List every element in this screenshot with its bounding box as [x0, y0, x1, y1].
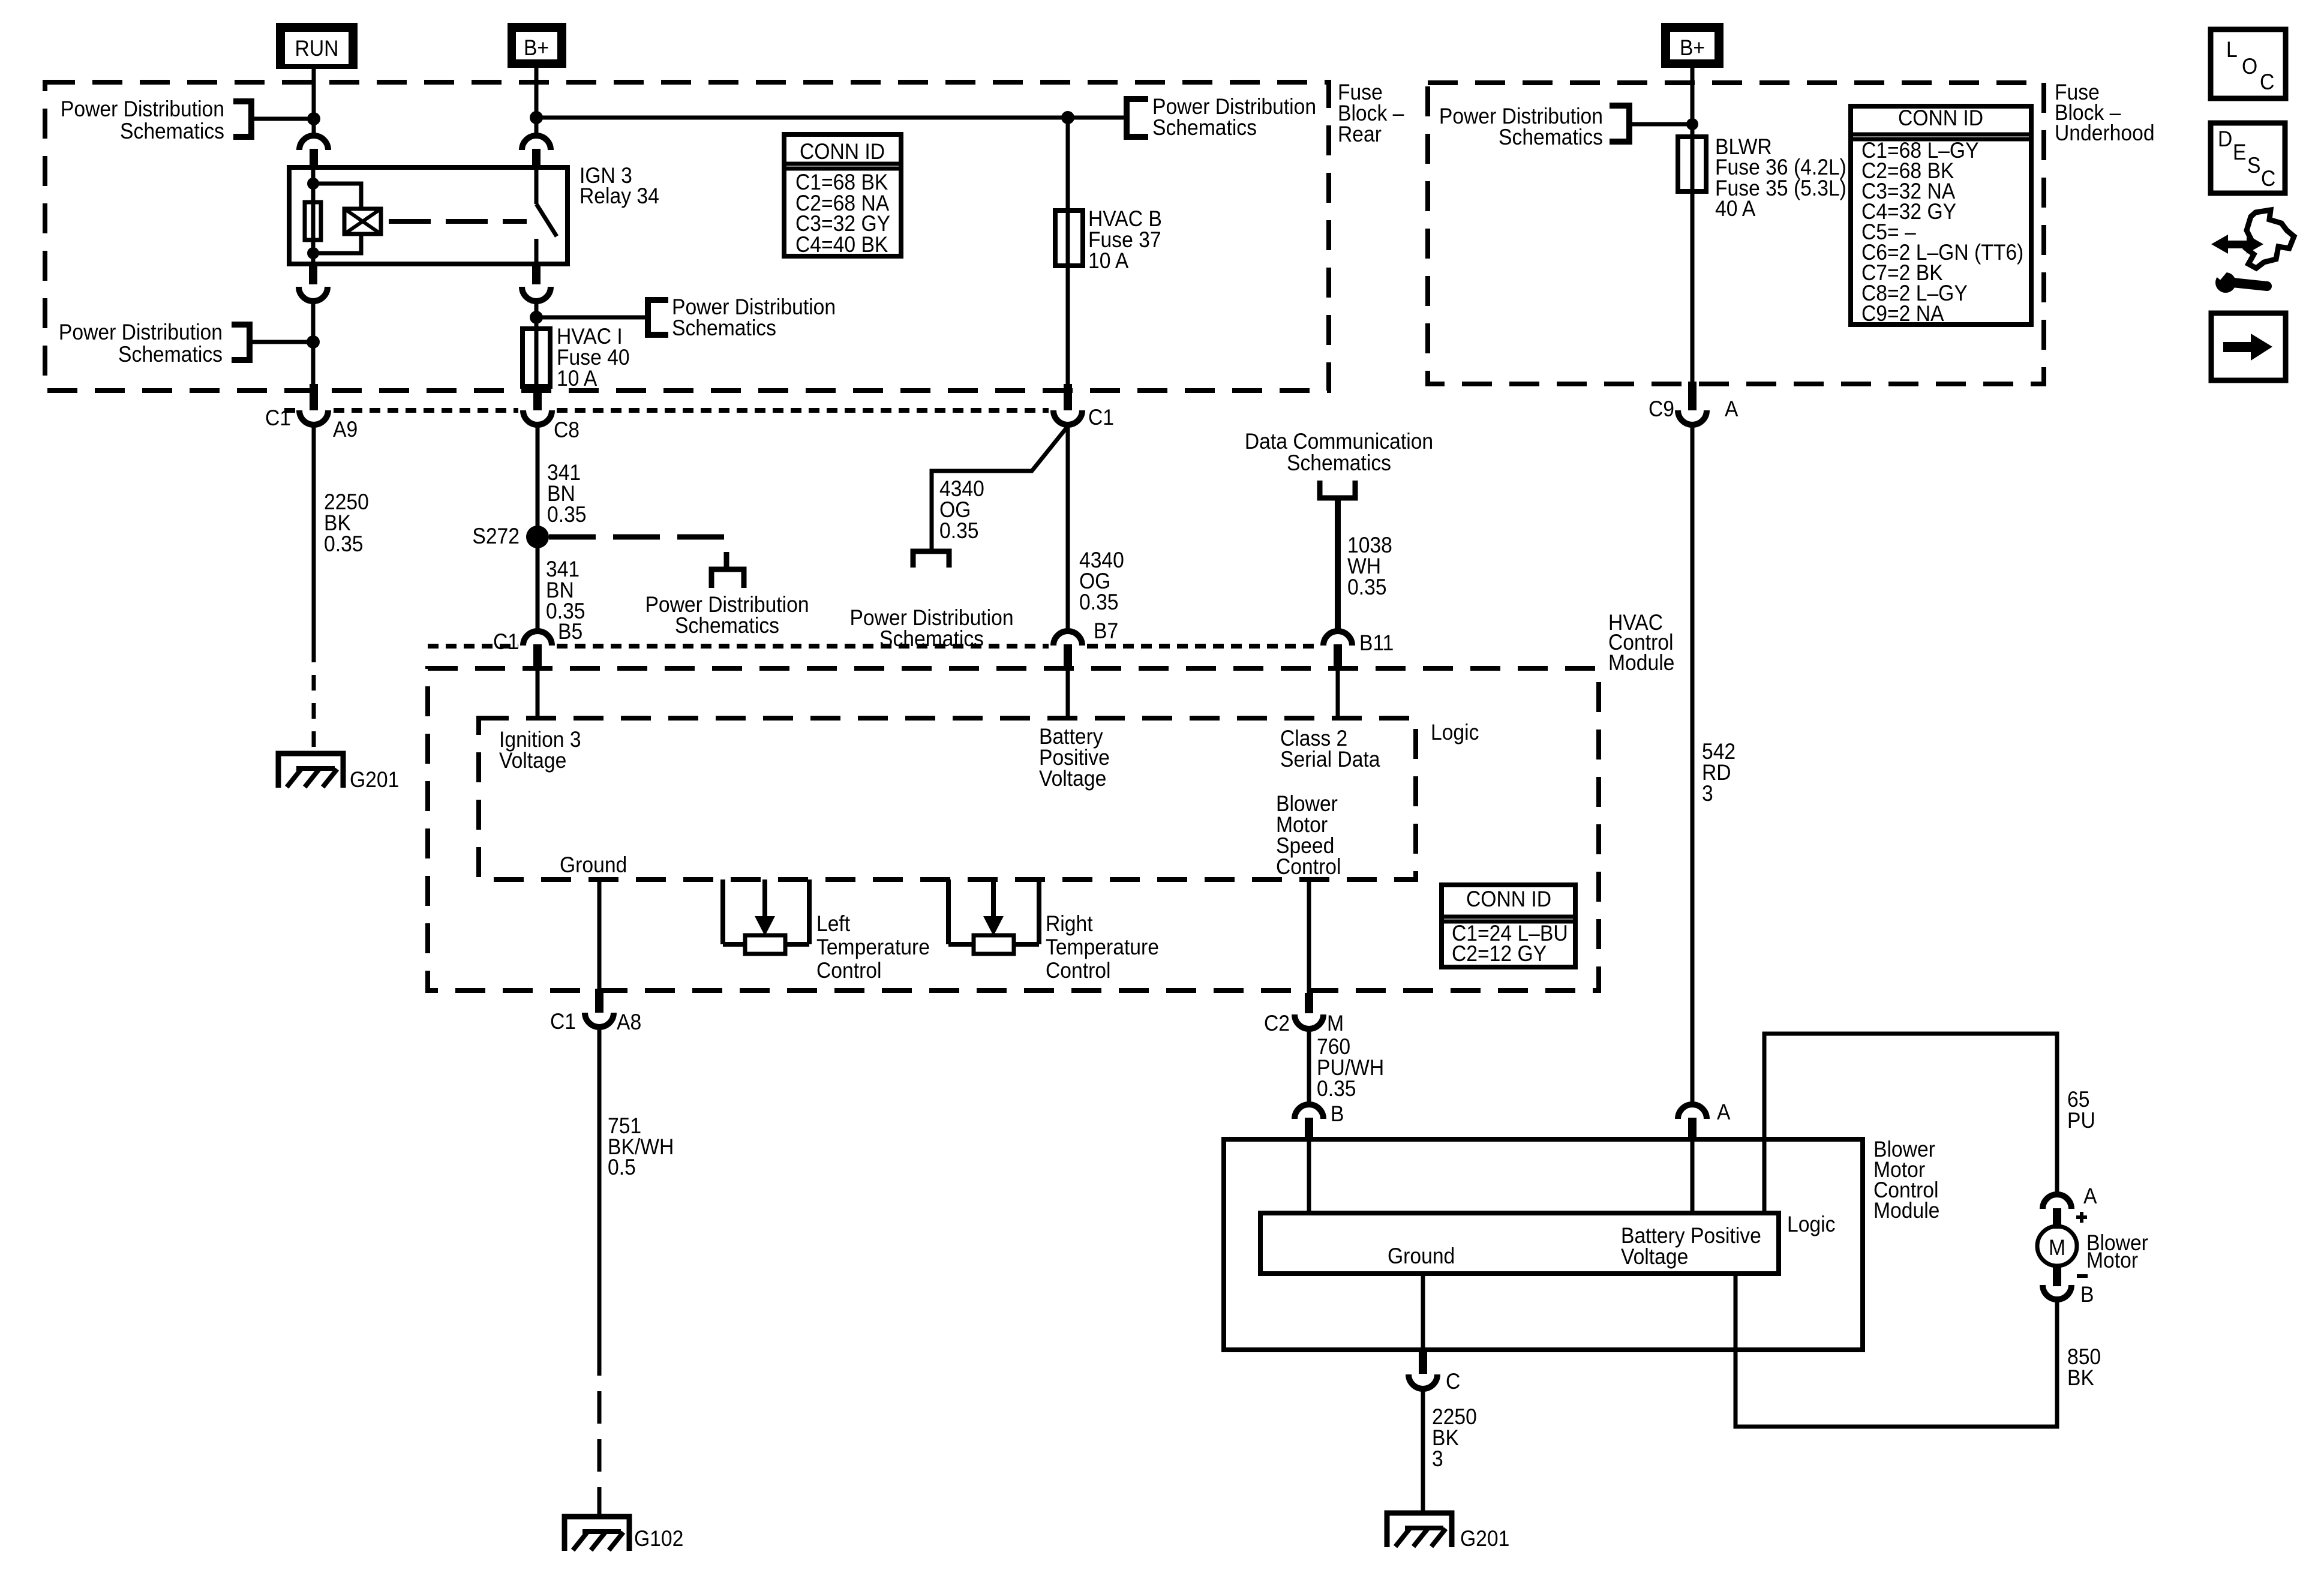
off-page bracket (HVAC I PD)	[648, 300, 668, 335]
wire data comm down	[1335, 498, 1341, 634]
connector C1/A9 arc	[299, 410, 328, 425]
left temperature control	[723, 879, 809, 954]
wire C8 down	[536, 425, 540, 634]
blower motor M circle	[2037, 1226, 2077, 1266]
svg-text:C1: C1	[1088, 406, 1114, 430]
label Left Temperature Control	[816, 912, 930, 983]
module inner logic box	[1260, 1213, 1779, 1274]
wire B11 into module	[1336, 670, 1340, 720]
ground G102	[565, 1517, 629, 1551]
label HVAC B Fuse 37 10 A	[1088, 207, 1162, 274]
svg-text:B5: B5	[558, 620, 582, 644]
svg-text:Ground: Ground	[560, 853, 627, 878]
label Power Distribution Schematics (S272)	[645, 593, 809, 638]
svg-text:Rear: Rear	[1338, 122, 1382, 147]
connector B7 stub	[1064, 644, 1072, 670]
wire B7 into module	[1066, 670, 1070, 720]
node coil top	[307, 178, 319, 190]
service icon (arrow + wrench)	[2211, 210, 2294, 293]
label Blower Motor Control Module	[1873, 1137, 1939, 1223]
relay output left: stub	[309, 264, 317, 284]
svg-text:D: D	[2218, 127, 2232, 152]
relay coil symbol	[344, 209, 381, 234]
label HVAC Control Module	[1608, 611, 1674, 676]
svg-text:Module: Module	[1873, 1199, 1939, 1223]
svg-text:Schematics: Schematics	[1287, 451, 1391, 476]
relay output right: stub	[532, 264, 541, 284]
svg-text:CONN ID: CONN ID	[1466, 887, 1551, 912]
svg-text:C: C	[2261, 167, 2275, 191]
wire B into inner box	[1307, 1141, 1311, 1213]
wire to relay coil top	[313, 184, 361, 209]
svg-text:M: M	[1327, 1011, 1344, 1036]
splice S272	[526, 526, 549, 548]
svg-text:0.35: 0.35	[1347, 575, 1387, 600]
svg-text:Temperature: Temperature	[1046, 935, 1159, 960]
off-page bracket right (PD rear)	[1127, 99, 1148, 137]
minus sign	[2077, 1274, 2088, 1278]
node junction HVAC B	[1061, 111, 1074, 124]
connector B5 arc	[523, 631, 552, 646]
label 751 BK/WH 0.5	[608, 1114, 674, 1180]
label Battery Positive Voltage (module)	[1621, 1224, 1761, 1269]
connector B5 stub	[533, 644, 542, 670]
connector C1 (HVAC B) arc	[1053, 410, 1082, 425]
label Power Distribution Schematics (HVAC I)	[672, 295, 836, 341]
svg-text:A8: A8	[617, 1010, 641, 1035]
wire ground down from inner box	[1421, 1274, 1425, 1350]
svg-text:Control: Control	[1046, 959, 1111, 983]
svg-text:G201: G201	[1460, 1527, 1509, 1551]
svg-text:Schematics: Schematics	[120, 119, 224, 144]
svg-text:C1: C1	[265, 406, 291, 431]
fuse BLWR	[1678, 137, 1706, 191]
label Ignition 3 Voltage	[499, 728, 581, 773]
off-page bracket for PD#1	[233, 101, 251, 137]
svg-text:Power Distribution: Power Distribution	[59, 320, 223, 345]
connector C arc	[1409, 1374, 1437, 1389]
label Fuse Block - Rear	[1338, 80, 1404, 147]
svg-text:CONN ID: CONN ID	[1898, 106, 1983, 131]
ground G201 right	[1387, 1513, 1452, 1547]
connector B11 stub	[1334, 644, 1342, 670]
svg-text:RUN: RUN	[295, 37, 339, 61]
fuse block underhood dashed box	[1428, 83, 2044, 384]
svg-text:PU: PU	[2067, 1109, 2095, 1133]
svg-text:Schematics: Schematics	[1152, 116, 1257, 140]
svg-text:3: 3	[1702, 782, 1713, 806]
node junction HVAC I	[530, 311, 543, 324]
label Data Communication Schematics	[1245, 430, 1433, 476]
wire bracket to RUN line	[251, 117, 314, 121]
B+ power box (right)	[1661, 23, 1724, 68]
wire bracket to B+ right line	[1629, 122, 1692, 127]
relay coil feed wire	[311, 167, 316, 264]
label Battery Positive Voltage	[1039, 725, 1110, 791]
mechanical link dashed	[389, 219, 527, 224]
svg-text:S272: S272	[472, 524, 520, 549]
ground G201 left	[278, 754, 343, 788]
off-page bracket (S272 branch)	[711, 569, 744, 588]
connector C8: stub	[533, 384, 542, 410]
label 1038 WH 0.35	[1347, 533, 1392, 600]
off-page bracket (data comm)	[1320, 481, 1355, 498]
svg-text:C8: C8	[554, 418, 580, 443]
svg-text:Voltage: Voltage	[1621, 1245, 1688, 1269]
svg-text:Control: Control	[816, 959, 882, 983]
svg-text:Relay 34: Relay 34	[580, 184, 659, 209]
wire B7 vertical	[1066, 425, 1070, 634]
svg-text:Right: Right	[1046, 912, 1093, 936]
svg-text:Ground: Ground	[1388, 1244, 1455, 1269]
connector B (motor) stub	[2053, 1267, 2061, 1286]
svg-text:B: B	[1331, 1102, 1344, 1127]
relay IGN 3 box	[289, 167, 568, 264]
wire diagonal from C1 to 4340 branch	[932, 425, 1069, 550]
svg-text:A9: A9	[333, 418, 358, 442]
label 2250 BK 0.35	[324, 490, 369, 557]
RUN power box	[276, 23, 358, 69]
label Blower Motor Speed Control	[1276, 792, 1341, 879]
svg-text:S: S	[2247, 154, 2260, 178]
wire to relay coil bottom	[313, 234, 361, 253]
svg-text:Schematics: Schematics	[675, 614, 779, 638]
wire A into inner box	[1691, 1141, 1695, 1213]
wire B5 into module	[536, 670, 540, 720]
svg-text:Control: Control	[1276, 855, 1341, 879]
svg-text:Voltage: Voltage	[499, 749, 566, 773]
svg-text:G102: G102	[634, 1527, 683, 1551]
svg-text:Voltage: Voltage	[1039, 767, 1106, 791]
wire relay right down	[535, 301, 539, 390]
svg-text:0.35: 0.35	[1079, 590, 1119, 615]
connector C stub	[1419, 1350, 1427, 1374]
label Class 2 Serial Data	[1280, 727, 1380, 772]
pin stub into relay (B+ side)	[532, 149, 541, 168]
connector C1/A9: stub	[310, 384, 318, 410]
svg-text:BK: BK	[2067, 1366, 2094, 1391]
label 4340 OG 0.35 (branch)	[939, 477, 984, 544]
wire C2 down to module	[1307, 1028, 1311, 1106]
logic dashed box	[479, 718, 1416, 879]
fuse HVAC B Fuse 37	[1055, 211, 1083, 266]
svg-text:B11: B11	[1359, 631, 1394, 656]
svg-text:Power Distribution: Power Distribution	[61, 97, 224, 122]
blower motor control module box	[1224, 1139, 1863, 1350]
wire B+ right down	[1691, 68, 1695, 389]
next-page arrow icon	[2211, 313, 2286, 380]
connector arc into relay (RUN side)	[299, 136, 328, 150]
label BLWR fuse	[1715, 135, 1846, 221]
svg-text:0.35: 0.35	[1317, 1077, 1356, 1101]
svg-text:CONN ID: CONN ID	[800, 140, 885, 164]
svg-text:G201: G201	[350, 768, 399, 792]
label 760 PU/WH 0.35	[1317, 1035, 1384, 1101]
HVAC control module dashed box	[428, 668, 1599, 990]
wire A8 dashed to ground	[597, 1343, 602, 1517]
connector B (motor) arc	[2043, 1285, 2071, 1299]
connector arc below relay right	[522, 287, 551, 301]
connector C2/M arc	[1295, 1014, 1323, 1029]
svg-text:A: A	[2083, 1184, 2097, 1209]
connector B (module) stub	[1305, 1118, 1313, 1140]
node junction on RUN line	[307, 112, 320, 125]
svg-text:Underhood: Underhood	[2055, 121, 2155, 146]
connector B11 arc	[1323, 631, 1352, 646]
resistor inside relay	[305, 202, 321, 240]
label 850 BK	[2067, 1345, 2101, 1391]
plus sign	[2076, 1212, 2087, 1223]
svg-text:C2: C2	[1264, 1011, 1290, 1036]
wire ground return from inner box right	[1736, 1274, 2057, 1427]
dotted connector line C1 (top)	[284, 408, 295, 413]
svg-text:C9: C9	[1649, 397, 1674, 422]
DESC icon box	[2211, 123, 2285, 193]
svg-text:B+: B+	[524, 36, 549, 61]
pin stub into relay (RUN side)	[310, 149, 318, 168]
svg-text:C9=2 NA: C9=2 NA	[1861, 302, 1944, 326]
label Power Distribution Schematics #1	[61, 97, 224, 144]
label Power Distribution Schematics (rear right)	[1152, 95, 1316, 140]
svg-text:Schematics: Schematics	[118, 343, 223, 367]
svg-text:0.5: 0.5	[608, 1155, 636, 1180]
svg-text:Serial Data: Serial Data	[1280, 748, 1380, 772]
connector C9 arc	[1678, 410, 1707, 425]
connector C9 stub	[1688, 382, 1697, 410]
wire C down to ground	[1421, 1388, 1425, 1514]
connector A (module) arc	[1678, 1104, 1707, 1119]
label 341 BN 0.35 lower	[546, 557, 585, 624]
LOC icon box	[2211, 29, 2286, 98]
wire B+ box down	[535, 68, 539, 136]
label 341 BN 0.35 upper	[547, 461, 587, 527]
wire A9 dashed to ground	[312, 647, 316, 755]
svg-text:C2=12 GY: C2=12 GY	[1452, 942, 1547, 966]
wire HVAC B down to fuse	[1066, 118, 1070, 389]
wire A8 down solid	[597, 1027, 602, 1343]
svg-text:C1: C1	[493, 630, 519, 655]
fuse HVAC I Fuse 40	[523, 329, 550, 386]
label Blower Motor (motor)	[2086, 1231, 2148, 1273]
relay switch common	[535, 167, 539, 204]
B+ power box (left)	[508, 23, 566, 68]
off-page bracket for PD#2	[232, 325, 250, 360]
svg-text:A: A	[1717, 1100, 1731, 1125]
svg-text:10 A: 10 A	[1088, 249, 1129, 274]
wire RUN box down	[312, 69, 316, 136]
svg-text:E: E	[2233, 140, 2246, 165]
label 2250 BK 3	[1432, 1405, 1477, 1472]
dashed branch wire from S272	[549, 537, 726, 569]
right temperature control	[948, 879, 1039, 954]
svg-text:C: C	[1446, 1370, 1460, 1394]
node junction B+ right	[1686, 118, 1698, 130]
svg-text:10 A: 10 A	[557, 367, 597, 391]
relay switch blade	[536, 204, 557, 236]
wire Ground down from logic box	[597, 879, 602, 989]
svg-text:0.35: 0.35	[324, 532, 364, 557]
svg-text:Module: Module	[1608, 651, 1674, 676]
node junction PD#2	[307, 335, 320, 349]
label Right Temperature Control	[1046, 912, 1159, 983]
connector A (motor) arc	[2043, 1194, 2071, 1209]
off-page bracket (underhood PD)	[1610, 106, 1629, 142]
wire B+ junction to HVAC B tap	[536, 116, 1127, 120]
label Power Distribution Schematics (underhood)	[1439, 104, 1603, 150]
connector B7 arc	[1053, 631, 1082, 646]
label 4340 OG 0.35 (B7)	[1079, 548, 1124, 615]
fuse block rear dashed box	[45, 82, 1329, 391]
svg-text:C4=40 BK: C4=40 BK	[795, 233, 888, 257]
wire blower speed control down	[1307, 879, 1311, 994]
wire relay left down	[311, 301, 316, 389]
wire motor feed up/right	[1764, 1034, 2057, 1213]
label IGN 3 Relay 34	[580, 164, 659, 209]
connector C2/M stub	[1305, 993, 1313, 1013]
svg-text:Motor: Motor	[2086, 1248, 2138, 1273]
svg-text:B+: B+	[1680, 36, 1705, 61]
svg-text:Temperature: Temperature	[816, 935, 930, 960]
svg-text:0.35: 0.35	[939, 519, 979, 544]
svg-text:B7: B7	[1094, 619, 1118, 644]
CONN ID table (HVAC)	[1442, 885, 1575, 967]
connector C8 arc	[523, 410, 552, 425]
svg-text:3: 3	[1432, 1447, 1443, 1472]
connector A (module) stub	[1688, 1118, 1697, 1140]
relay switch output	[535, 239, 539, 264]
svg-text:O: O	[2242, 55, 2257, 79]
svg-text:0.35: 0.35	[547, 503, 587, 527]
svg-text:40 A: 40 A	[1715, 197, 1756, 221]
wire A9 down solid	[312, 425, 316, 647]
svg-text:A: A	[1725, 397, 1739, 422]
label 65 PU	[2067, 1088, 2095, 1133]
node junction on B+ line	[530, 111, 543, 124]
connector A8 arc	[585, 1013, 614, 1027]
label Fuse Block - Underhood	[2055, 80, 2155, 146]
CONN ID table (rear)	[784, 134, 901, 257]
svg-text:Schematics: Schematics	[1499, 125, 1603, 150]
wire junction to bracket (HVAC I PD label)	[536, 316, 648, 320]
svg-text:C: C	[2260, 70, 2274, 95]
svg-text:B: B	[2080, 1283, 2094, 1307]
dotted connector line 2	[428, 644, 518, 649]
wire C9 down to module A	[1691, 425, 1695, 1106]
CONN ID table (underhood)	[1851, 106, 2031, 326]
svg-text:Logic: Logic	[1431, 721, 1479, 745]
svg-text:Schematics: Schematics	[879, 627, 984, 652]
svg-text:Logic: Logic	[1787, 1212, 1835, 1237]
svg-text:Data Communication: Data Communication	[1245, 430, 1433, 454]
svg-text:Left: Left	[816, 912, 850, 936]
connector A (motor) stub	[2053, 1208, 2061, 1229]
svg-text:M: M	[2049, 1236, 2065, 1260]
connector C1 (HVAC B): stub	[1064, 384, 1072, 410]
label HVAC I Fuse 40 10 A	[557, 325, 630, 391]
svg-text:C1: C1	[550, 1010, 576, 1034]
connector A8 stub	[595, 989, 603, 1013]
label Power Distribution Schematics (4340)	[849, 606, 1013, 652]
svg-text:Schematics: Schematics	[672, 316, 776, 341]
off-page bracket (4340 branch)	[913, 551, 949, 568]
connector arc into relay (B+ side)	[522, 136, 551, 150]
node coil bottom	[307, 247, 319, 259]
label 542 RD 3	[1702, 740, 1736, 806]
svg-text:L: L	[2226, 38, 2238, 62]
connector arc below relay left	[299, 287, 328, 301]
label Power Distribution Schematics #2	[59, 320, 223, 367]
wire bracket PD#2	[250, 340, 313, 344]
connector B (module) arc	[1295, 1104, 1323, 1119]
